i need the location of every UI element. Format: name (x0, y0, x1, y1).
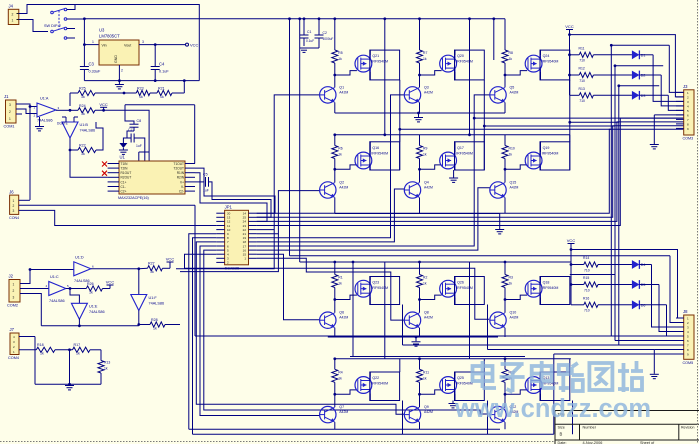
svg-text:C2+: C2+ (121, 190, 127, 194)
wire (257, 258, 405, 320)
svg-text:U1:B: U1:B (80, 123, 89, 127)
svg-text:COM4: COM4 (8, 356, 19, 360)
transistor Q17 IRF9540M (440, 146, 473, 169)
wire (454, 50, 456, 80)
op-amp U1:F 74ALS86 (131, 295, 164, 311)
transistor Q22 IRF9540M (355, 376, 388, 393)
op-amp U1:C 74ALS86 (46, 275, 66, 303)
svg-text:JP1: JP1 (225, 204, 233, 209)
svg-text:R1: R1 (338, 276, 342, 280)
svg-text:1k: 1k (104, 367, 108, 371)
svg-text:Q25: Q25 (457, 376, 464, 380)
resistor R27 1k (139, 262, 170, 275)
svg-text:A42M: A42M (424, 410, 433, 414)
resistor R26 1k (86, 282, 110, 295)
svg-text:Vin: Vin (102, 44, 107, 48)
power flag VCC (565, 24, 574, 95)
svg-text:Q1: Q1 (339, 85, 344, 89)
wire (70, 289, 79, 304)
wire (454, 372, 456, 401)
wire (65, 5, 199, 81)
wire (554, 354, 676, 434)
svg-text:R14: R14 (583, 256, 589, 260)
svg-text:R6: R6 (338, 147, 342, 151)
connector J7 COM4 (8, 327, 19, 360)
svg-text:Q9: Q9 (424, 405, 429, 409)
wire (639, 95, 683, 110)
resistor R11 710 (570, 46, 632, 62)
svg-text:1k: 1k (338, 57, 342, 61)
transistor Q25 IRF9540M (440, 376, 473, 393)
wire (204, 250, 489, 414)
svg-text:C5: C5 (203, 173, 208, 177)
resistor R1 1k (332, 262, 343, 301)
wire (483, 125, 615, 128)
svg-text:Q2: Q2 (339, 181, 344, 185)
resistor R5 1k (332, 19, 343, 77)
svg-text:V-: V- (181, 185, 184, 189)
wire (419, 198, 421, 214)
svg-text:74ALS86: 74ALS86 (149, 301, 165, 305)
ground (449, 170, 458, 182)
svg-text:U3: U3 (99, 28, 105, 33)
wire (540, 277, 542, 305)
svg-text:R5: R5 (338, 51, 342, 55)
svg-text:R2: R2 (423, 276, 427, 280)
svg-text:3: 3 (13, 296, 15, 300)
wire: rail (333, 357, 570, 360)
wire (119, 65, 123, 81)
svg-text:R8: R8 (509, 51, 513, 55)
svg-text:1k: 1k (423, 153, 427, 157)
wire (139, 40, 186, 46)
svg-text:1k: 1k (76, 352, 80, 356)
svg-text:IRF9540M: IRF9540M (371, 286, 388, 290)
svg-text:R4: R4 (338, 370, 342, 374)
transistor Q12 A42M (490, 405, 519, 423)
svg-text:IRF9540M: IRF9540M (371, 60, 388, 64)
wire (419, 394, 421, 407)
svg-text:1: 1 (13, 199, 15, 203)
resistor R31 1k (98, 350, 110, 385)
wire (639, 55, 683, 102)
wire (334, 394, 336, 407)
wire (504, 422, 506, 429)
connector J6 (9, 189, 19, 220)
svg-text:Q19: Q19 (543, 146, 550, 150)
wire (26, 288, 49, 290)
svg-text:T1OUT: T1OUT (174, 162, 185, 166)
switch SW DIP-2 (44, 8, 67, 39)
ground (35, 117, 44, 131)
svg-text:Number: Number (583, 426, 597, 430)
wire (62, 117, 78, 122)
wire (540, 372, 542, 401)
LED D2 (632, 71, 646, 80)
wire (571, 250, 684, 319)
LED D6 (632, 300, 646, 309)
svg-text:1k: 1k (338, 282, 342, 286)
svg-text:1: 1 (13, 283, 15, 287)
transistor Q6 A42M (320, 311, 349, 329)
ground (300, 48, 309, 52)
wire (419, 422, 421, 429)
op-amp U1:A 74ALS86 (34, 97, 60, 123)
wire (257, 191, 320, 234)
wire (193, 238, 217, 434)
svg-text:IRF9540M: IRF9540M (542, 60, 559, 64)
wire (610, 45, 612, 336)
capacitor C4 0.1uF (151, 45, 170, 81)
wire (505, 71, 527, 75)
transistor Q7 A42M (320, 405, 349, 423)
wire (91, 267, 140, 270)
wire: emitter rail (335, 112, 505, 115)
svg-text:1k: 1k (338, 153, 342, 157)
ground (414, 113, 423, 122)
svg-text:J6: J6 (9, 189, 14, 194)
resistor R13 710 (570, 87, 632, 103)
transistor Q24 IRF9540M (525, 54, 558, 72)
svg-text:A42M: A42M (424, 316, 433, 320)
wire (335, 295, 357, 299)
wire (19, 204, 195, 206)
wire (654, 350, 683, 374)
wire (504, 102, 506, 113)
resistor R30 1k (73, 343, 102, 356)
svg-text:T2IN: T2IN (121, 167, 129, 171)
wire (540, 277, 570, 305)
capacitor C3 0.33uF (80, 62, 101, 81)
wire (69, 138, 72, 151)
wire (420, 295, 442, 299)
svg-text:COM2: COM2 (7, 304, 18, 308)
svg-text:1k: 1k (509, 57, 513, 61)
wire (195, 168, 275, 213)
svg-text:VCC: VCC (190, 42, 199, 47)
svg-text:R28: R28 (151, 318, 158, 322)
op-amp U1:D 74ALS86 (74, 256, 94, 283)
wire (370, 50, 400, 80)
wire (570, 275, 684, 341)
svg-text:A42M: A42M (339, 90, 348, 94)
wire (420, 165, 442, 169)
wire (505, 390, 527, 394)
transistor Q26 IRF9540M (440, 280, 473, 297)
svg-text:A42M: A42M (510, 186, 519, 190)
wire (26, 294, 41, 326)
connector J4 (8, 4, 18, 25)
wire (334, 75, 336, 87)
wire (639, 305, 683, 336)
resistor R9 1k (417, 135, 428, 171)
svg-text:Q22: Q22 (372, 376, 379, 380)
svg-text:2: 2 (13, 289, 15, 293)
svg-text:Q3: Q3 (424, 85, 429, 89)
wire (569, 80, 571, 170)
svg-text:R2OUT: R2OUT (121, 176, 132, 180)
capacitor C2 1000uF (304, 19, 333, 48)
svg-text:IRF9540M: IRF9540M (542, 151, 559, 155)
svg-text:1k: 1k (139, 95, 143, 99)
svg-text:J3: J3 (683, 84, 688, 89)
svg-text:VCC: VCC (166, 257, 175, 262)
wire (455, 277, 485, 305)
capacitor C1 0.1uF (300, 19, 315, 46)
wire (257, 189, 405, 242)
svg-text:2: 2 (9, 110, 11, 114)
svg-text:R23: R23 (137, 87, 144, 91)
transistor Q10 A42M (490, 311, 519, 329)
wire (84, 40, 99, 44)
svg-text:710: 710 (579, 99, 585, 103)
wire (139, 121, 149, 161)
wire (138, 269, 140, 295)
wire (19, 5, 65, 14)
wire (540, 50, 570, 80)
wire (41, 324, 139, 327)
connector J1 COM1 (4, 94, 23, 129)
svg-text:COM5: COM5 (683, 361, 694, 365)
svg-text:1: 1 (92, 40, 94, 44)
svg-text:GND: GND (114, 55, 118, 63)
svg-text:IRF9540M: IRF9540M (456, 60, 473, 64)
svg-text:1k: 1k (40, 352, 44, 356)
svg-text:C3: C3 (89, 62, 95, 67)
wire (504, 394, 506, 407)
wire (257, 95, 405, 238)
wire (639, 285, 683, 332)
wire (369, 50, 371, 80)
transistor Q2 A42M (320, 181, 349, 199)
resistor R12 1k (502, 359, 515, 396)
wire (22, 104, 37, 200)
connector J2 COM2 (7, 274, 26, 308)
wire (504, 169, 506, 182)
ground (650, 145, 659, 149)
connector JP1 DB25 (216, 204, 256, 270)
wire (454, 277, 456, 305)
svg-text:A42M: A42M (339, 410, 348, 414)
op-amp U1:B 74ALS86 (57, 122, 95, 139)
power flag VCC (99, 102, 108, 111)
wire: main +12V bus (83, 17, 505, 20)
wire (505, 295, 527, 299)
capacitor C5 1uF (195, 173, 271, 218)
wire (257, 188, 490, 250)
wire (299, 19, 301, 262)
svg-text:T1IN: T1IN (121, 162, 129, 166)
resistor R28 1k (139, 318, 180, 331)
svg-text:1: 1 (12, 19, 14, 23)
svg-text:R26: R26 (87, 282, 94, 286)
svg-text:SW DIP-2: SW DIP-2 (44, 24, 61, 28)
wire (66, 284, 87, 290)
transistor Q23 IRF9540M (355, 280, 388, 297)
svg-text:1k: 1k (81, 95, 85, 99)
no-connect X (102, 162, 107, 167)
svg-text:U1:D: U1:D (75, 256, 84, 260)
svg-text:R11: R11 (423, 370, 429, 374)
svg-text:MAX232ACPE(16): MAX232ACPE(16) (118, 196, 149, 200)
svg-text:Q4: Q4 (424, 181, 429, 185)
wire (504, 300, 506, 313)
wire (540, 372, 570, 401)
svg-text:1k: 1k (150, 270, 154, 274)
wire (619, 86, 684, 345)
LED D5 (632, 280, 646, 289)
svg-text:R22: R22 (79, 144, 86, 148)
svg-text:Q10: Q10 (510, 311, 517, 315)
svg-text:VCC: VCC (567, 238, 576, 243)
watermark (454, 361, 651, 423)
wire (334, 169, 336, 182)
wire (505, 165, 527, 169)
wire (19, 20, 48, 32)
resistor R11 1k (417, 359, 430, 396)
wire (194, 105, 196, 164)
svg-text:0.33uF: 0.33uF (89, 70, 102, 74)
wire (615, 66, 684, 341)
wire (385, 19, 494, 135)
svg-text:U1: U1 (120, 155, 126, 160)
power flag VCC (166, 257, 175, 269)
svg-text:710: 710 (584, 268, 590, 272)
wire (504, 328, 506, 337)
connector J8 COM5 DB9 (676, 309, 694, 365)
wire (67, 5, 85, 39)
LED D3 (632, 91, 646, 100)
resistor R8 1k (502, 19, 513, 77)
capacitor C8 1uF (125, 105, 141, 131)
svg-text:R3: R3 (509, 276, 513, 280)
svg-text:T2OUT: T2OUT (174, 167, 185, 171)
svg-text:Q17: Q17 (457, 146, 464, 150)
wire (540, 142, 570, 170)
svg-text:R17: R17 (74, 343, 81, 347)
LED D4 (632, 260, 646, 269)
wire (350, 262, 525, 357)
svg-text:CON4: CON4 (9, 216, 19, 220)
IC U1 MAX232 (108, 155, 195, 201)
resistor R25 1k (70, 87, 136, 107)
svg-text:R12: R12 (579, 67, 585, 71)
resistor R24 1k (78, 104, 125, 116)
svg-text:1k: 1k (153, 326, 157, 330)
ground (495, 214, 504, 234)
wire: rail (300, 261, 571, 264)
resistor R12 710 (570, 67, 632, 83)
svg-text:IRF9540M: IRF9540M (456, 151, 473, 155)
transistor Q19 IRF9540M (525, 146, 558, 169)
wire (78, 319, 80, 326)
svg-text:IRF9540M: IRF9540M (456, 382, 473, 386)
wire: gnd rail (84, 79, 199, 82)
wire (335, 390, 357, 394)
svg-text:1k: 1k (509, 153, 513, 157)
svg-text:1k: 1k (81, 152, 85, 156)
svg-text:2: 2 (121, 69, 123, 73)
power flag VCC (567, 238, 576, 305)
wire (504, 75, 506, 87)
svg-text:R7: R7 (423, 51, 427, 55)
wire (488, 305, 655, 350)
wire (137, 311, 140, 326)
connector J3 COM3 DB9 (676, 84, 694, 141)
svg-text:1k: 1k (81, 112, 85, 116)
wire (19, 337, 35, 385)
wire (334, 422, 336, 429)
ground (650, 374, 659, 378)
svg-text:VCC: VCC (106, 280, 115, 285)
wire (257, 122, 684, 221)
svg-text:A42M: A42M (339, 186, 348, 190)
wire: emitter rail (189, 428, 500, 430)
wire (200, 246, 320, 416)
svg-text:A42M: A42M (339, 316, 348, 320)
wire (654, 115, 683, 144)
wire (334, 102, 336, 113)
wire (70, 150, 108, 177)
wire (334, 328, 336, 337)
svg-text:Revision: Revision (681, 426, 694, 430)
svg-text:R1OUT: R1OUT (121, 171, 132, 175)
svg-text:B: B (560, 432, 563, 437)
svg-text:J8: J8 (683, 309, 688, 314)
wire (369, 142, 371, 170)
wire (19, 199, 30, 201)
transistor Q13 IRF9540M (525, 376, 558, 393)
resistor R3 1k (502, 262, 513, 301)
svg-text:R9: R9 (423, 147, 427, 151)
svg-text:A42M: A42M (510, 90, 519, 94)
svg-text:U1:E: U1:E (89, 305, 98, 309)
ground (65, 350, 74, 390)
svg-text:74ALS86: 74ALS86 (49, 299, 65, 303)
wire: rail (290, 256, 684, 323)
wire (176, 230, 274, 269)
transistor Q21 IRF9540M (355, 54, 388, 72)
svg-text:1uF: 1uF (203, 189, 209, 193)
svg-text:74ALS86: 74ALS86 (89, 310, 105, 314)
resistor R22 1k (70, 122, 103, 156)
wire (419, 169, 421, 182)
svg-text:J7: J7 (10, 327, 15, 332)
resistor R29 1k (19, 343, 73, 356)
wire (125, 110, 149, 121)
svg-text:1k: 1k (423, 376, 427, 380)
svg-text:LM7805CT: LM7805CT (99, 34, 120, 39)
wire (403, 401, 573, 435)
resistor R4 1k (332, 359, 343, 396)
svg-text:Q5: Q5 (510, 85, 515, 89)
svg-text:DGATE: DGATE (57, 122, 68, 126)
svg-text:R21: R21 (158, 87, 165, 91)
svg-text:1k: 1k (423, 282, 427, 286)
wire (540, 50, 542, 80)
transistor Q18 IRF9540M (525, 280, 558, 297)
svg-text:Q7: Q7 (339, 405, 344, 409)
svg-text:Q18: Q18 (543, 281, 550, 285)
svg-text:C1-: C1- (121, 185, 126, 189)
svg-text:R1IN: R1IN (177, 171, 185, 175)
svg-text:2: 2 (12, 13, 14, 17)
wire (35, 383, 101, 386)
resistor R7 1k (417, 19, 428, 77)
svg-text:Size: Size (558, 426, 565, 430)
wire (455, 50, 485, 80)
svg-text:COM1: COM1 (4, 125, 15, 129)
